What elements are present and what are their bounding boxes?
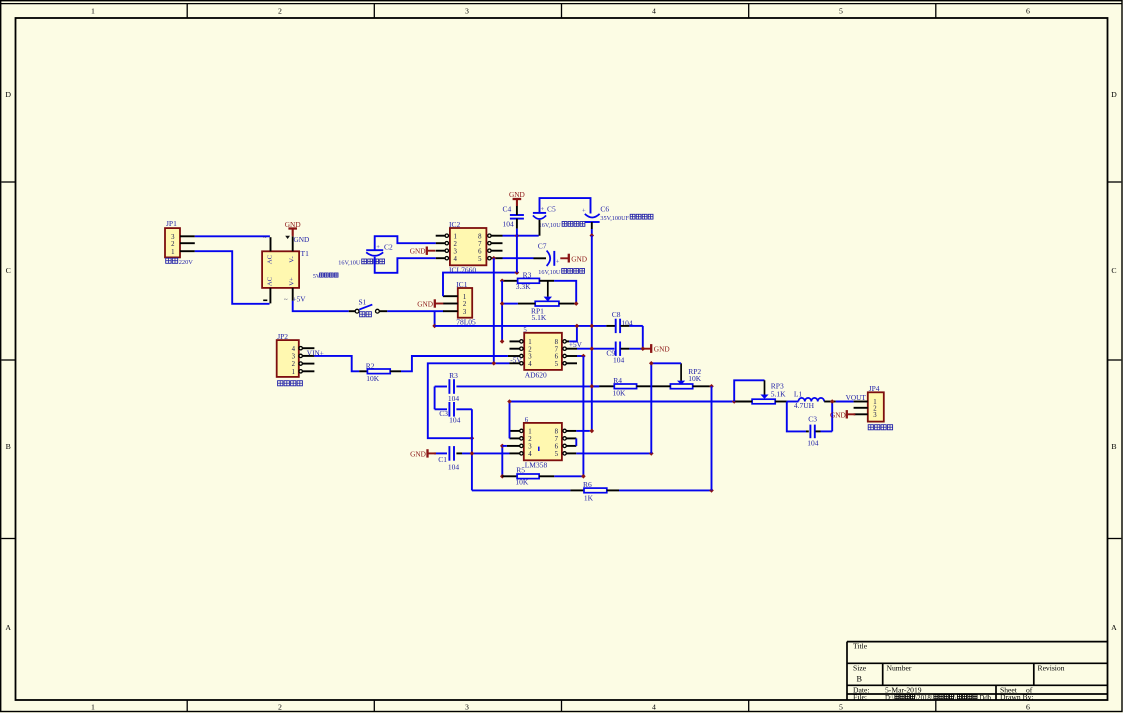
wire LM358.3 down to R5 [501,446,503,476]
svg-text:~: ~ [284,297,288,304]
svg-text:5: 5 [478,256,482,263]
wire JP1.3 to T1 AC1 [195,235,270,237]
svg-text:GND: GND [410,247,426,256]
svg-text:104: 104 [448,394,460,403]
svg-text:3: 3 [465,7,469,16]
svg-text:R6: R6 [583,480,592,489]
svg-text:4: 4 [652,7,656,16]
junction C6 bottom [590,233,595,238]
svg-text:3: 3 [465,703,469,712]
svg-text:~: ~ [263,235,267,242]
junction LM358.5 net [649,451,654,456]
capacitor C6 35V,100UF electrolytic [582,205,653,236]
svg-text:R4: R4 [613,376,622,385]
svg-text:16V,10U: 16V,10U [338,260,361,267]
svg-text:AC: AC [267,276,274,286]
connector JP2 signal input [277,332,315,386]
svg-text:V-: V- [289,256,296,262]
svg-text:L1: L1 [794,389,803,398]
capacitor R3 104 [435,371,460,403]
svg-text:104: 104 [448,462,460,471]
svg-text:C4: C4 [503,205,512,214]
instrumentation amp U AD620 [508,327,577,379]
capacitor C1 104 [434,446,510,471]
svg-text:1K: 1K [584,493,594,502]
wire C3out bracket left [787,402,806,432]
svg-text:A: A [5,623,11,632]
wire RP2 right down to R6 net [711,386,713,490]
svg-text:C8: C8 [612,310,621,319]
svg-text:104: 104 [449,416,461,425]
ground port GND above C4 [509,190,525,206]
junction C3out at VOUT [830,399,835,404]
wire LM358.6-7 bracket [575,438,577,446]
wire LM358.8 to rail [576,430,590,432]
svg-text:5: 5 [555,361,559,368]
wire +5V drop to AD620.8 [569,326,577,342]
svg-text:GND: GND [294,235,310,244]
svg-text:B: B [1111,442,1116,451]
svg-text:4: 4 [454,256,458,263]
wire RP2 wiper bracket to LM358.5 [651,363,681,453]
svg-text:B: B [857,674,863,683]
svg-text:Revision: Revision [1038,663,1065,672]
junction RP2 bracket [649,361,654,366]
wire +5V rail [435,325,607,327]
capacitor C8 104 [606,310,643,333]
svg-text:104: 104 [613,355,625,364]
svg-text:16V,10U: 16V,10U [538,269,561,276]
capacitor C3 104 [435,402,472,425]
junction LM358.3 [500,444,505,449]
svg-text:D: D [5,90,11,99]
wire RP3 to L1 [787,401,799,403]
junction R5 left [500,474,505,479]
resistor R4 10K [592,376,651,398]
junction C8/C9 right [641,346,646,351]
wire LM358.3 stub link [502,445,507,447]
svg-text:2: 2 [278,703,282,712]
resistor R2 10K [359,361,401,383]
svg-text:3: 3 [528,354,532,361]
svg-text:Number: Number [887,663,912,672]
wire R3 node down to AD620.1 [501,281,503,342]
svg-text:GND: GND [410,449,426,458]
svg-text:2: 2 [528,346,532,353]
wire C5 top to C6 top [540,198,591,213]
junction RP1 left [500,301,505,306]
wire LM358.5 to RP2 net [576,452,651,454]
junction R3 left [500,279,505,284]
capacitor C4 104 [503,205,524,273]
capacitor C2 16V,10U electrolytic [338,243,393,267]
svg-text:5: 5 [555,451,559,458]
junction C1 wire at -5V column [470,451,475,456]
junction C4 node [515,270,520,275]
svg-text:R3: R3 [523,270,532,279]
svg-text:C1: C1 [438,455,447,464]
svg-text:IC1: IC1 [456,280,468,289]
svg-text:.Ddb: .Ddb [978,695,992,702]
svg-text:S1: S1 [359,298,367,307]
regulator IC1 78L05 [443,280,476,327]
svg-text:AD620: AD620 [525,370,547,379]
capacitor C5 16V,10U electrolytic [533,205,585,236]
op-amp LM358 [507,417,576,469]
wire T1 V+ to switch S1 [293,301,349,311]
svg-text:GND: GND [509,190,525,199]
resistor R6 1K [570,480,711,502]
ground port GND at C7 [560,254,587,264]
svg-text:T1: T1 [301,249,310,258]
wire C2 top to IC2.2 [375,236,436,250]
svg-text:C5: C5 [547,205,556,214]
svg-text:R3: R3 [449,371,458,380]
svg-text:GND: GND [830,410,846,419]
resistor R3 3.3K [502,270,554,291]
svg-text:4: 4 [528,451,532,458]
svg-text:Drawn By:: Drawn By: [1000,693,1034,702]
svg-text:R2: R2 [366,361,375,370]
svg-text:GND: GND [654,345,670,354]
svg-text:8: 8 [478,233,482,240]
junction RP3 bracket on output row [732,399,737,404]
junction R6 right [709,488,714,493]
svg-text:5.1K: 5.1K [532,313,547,322]
svg-text:3: 3 [292,354,296,361]
svg-text:5: 5 [839,7,843,16]
wire C8 right to C9 right [642,326,644,349]
wire R2 to AD620.3 [401,356,508,371]
svg-text:2: 2 [292,361,296,368]
inductor L1 4.7UH [794,389,824,410]
resistor R5 10K [502,465,582,486]
svg-text:A: A [1111,623,1117,632]
svg-text:R5: R5 [516,465,525,474]
wire R3cap right to R4 row [456,385,599,387]
wire L1 to JP4.1 [824,401,853,403]
svg-text:1: 1 [454,233,457,240]
svg-text:\: \ [954,695,956,702]
svg-text:4: 4 [292,346,296,353]
svg-text:JP1: JP1 [166,219,177,228]
wire IC2.5 to C7 [503,257,534,259]
svg-text:LM358: LM358 [525,460,548,469]
svg-text:8: 8 [555,339,559,346]
connector JP4 output [854,384,893,430]
svg-text:3: 3 [463,309,467,316]
transformer module T1 5V switching supply [262,235,338,304]
wire C3 right down -5V column [471,409,473,490]
junction R5 right at pin6 column [581,474,586,479]
svg-text:7: 7 [478,241,482,248]
wire RP3 wiper bracket [734,380,764,401]
svg-text:10K: 10K [688,374,702,383]
svg-text:D: D [1111,90,1117,99]
svg-text:10K: 10K [515,477,529,486]
svg-text:JP4: JP4 [869,384,880,393]
wire AD620.7 to C9 [577,348,614,350]
capacitor C7 16V,10U electrolytic [534,242,585,277]
svg-text:220V: 220V [179,259,194,266]
wire C2 bottom to IC2.4 [375,257,436,273]
svg-text:6: 6 [555,444,559,451]
svg-text:2: 2 [171,241,175,248]
junction rail at +5V row [590,324,595,329]
svg-text:3.3K: 3.3K [516,282,531,291]
svg-text:V+: V+ [289,277,296,286]
svg-text:6: 6 [478,248,482,255]
wire -5V vertical [493,258,495,363]
svg-text:7: 7 [555,436,559,443]
svg-text:C2: C2 [384,243,393,252]
svg-text:-5V: -5V [510,355,522,364]
svg-text:GND: GND [571,254,587,263]
ground port GND at T1 V- [285,220,301,236]
svg-text:AC: AC [267,254,274,264]
svg-text:78L05: 78L05 [456,318,476,327]
ground port GND at C9 [643,344,670,354]
svg-text:+: + [556,259,560,266]
charge pump IC2 ICL7660 [436,220,503,274]
svg-text:4.7UH: 4.7UH [794,401,815,410]
svg-text:1: 1 [463,294,466,301]
svg-text:2: 2 [463,301,467,308]
title block [847,641,1107,702]
wire LM358.1/2 feedback to out row [510,402,736,439]
svg-text:6: 6 [555,354,559,361]
wire C3out right up to VOUT [831,402,833,432]
svg-text:1: 1 [91,7,95,16]
svg-text:C: C [6,266,11,275]
svg-text:4: 4 [528,361,532,368]
svg-text:GND: GND [417,300,433,309]
wire R3cap to C3 link [434,387,436,410]
svg-text:2: 2 [454,241,458,248]
wire JP2.3 to R2 [314,356,359,371]
junction R4 left on rail [590,384,595,389]
potentiometer RP3 5.1K [735,380,787,404]
svg-text:ICL7660: ICL7660 [449,265,476,274]
wire JP1.1 to T1 AC2 [195,251,270,304]
svg-text:1: 1 [528,429,531,436]
svg-text:C3: C3 [439,409,448,418]
svg-text:1: 1 [528,339,531,346]
junction RP2 right [709,384,714,389]
potentiometer RP1 5.1K [503,281,575,322]
svg-text:5: 5 [839,703,843,712]
wire IC2.8 to C5 [503,235,539,237]
junction +5V drop [575,324,580,329]
wire pin6 vertical to R5 [582,356,584,476]
svg-text:GND: GND [285,220,301,229]
svg-text:5-Mar-2019: 5-Mar-2019 [885,686,922,695]
junction -5V bottom link [470,436,475,441]
svg-text:Size: Size [853,663,867,672]
junction -5V at AD620.4 [492,361,497,366]
junction rail at pin7 row [590,346,595,351]
ground port GND at IC2.3 [410,247,436,256]
svg-text:B: B [6,442,11,451]
wire S1 to IC1 pin3 [379,310,443,312]
svg-text:C: C [1111,266,1116,275]
svg-text:5.1K: 5.1K [771,389,786,398]
wire IC1.1 to C4 node [443,273,517,297]
svg-text:7: 7 [555,346,559,353]
svg-text:8: 8 [555,429,559,436]
svg-text:104: 104 [807,438,819,447]
wire -5V to AD620.4 and down [428,363,510,438]
wire R3 right to RP1 right [554,281,576,304]
svg-text:D:\: D:\ [885,695,894,702]
junction LM358.8 rail [590,429,595,434]
svg-text:VOUT: VOUT [846,393,867,402]
wire -5V bottom row [472,489,571,491]
svg-text:\2018\: \2018\ [915,695,932,702]
connector JP1 [165,219,195,266]
svg-text:1: 1 [171,249,174,256]
svg-text:3: 3 [873,412,877,419]
svg-text:10K: 10K [613,389,627,398]
junction feedback corner [507,399,512,404]
svg-text:35V,100UF: 35V,100UF [600,215,629,222]
svg-text:1: 1 [292,369,295,376]
junction AD620.1 [500,339,505,344]
svg-text:Title: Title [853,641,868,650]
svg-text:6: 6 [1026,703,1030,712]
svg-text:+: + [582,208,586,215]
svg-text:C6: C6 [600,205,609,214]
svg-text:104: 104 [503,220,515,229]
junction -5V tap on IC2.5 [492,256,497,261]
svg-text:10K: 10K [366,374,380,383]
svg-text:JP2: JP2 [277,332,288,341]
svg-text:3: 3 [454,248,458,255]
svg-text:IC2: IC2 [449,220,461,229]
ground port GND at JP4.3 [830,410,855,419]
svg-text:C3: C3 [808,414,817,423]
wire main vertical rail right [591,236,593,431]
svg-text:+: + [541,206,545,213]
ground port GND at C1 [410,449,436,458]
svg-text:2: 2 [278,7,282,16]
svg-text:+5V: +5V [293,295,307,304]
junction RP1 right [574,301,579,306]
svg-text:2: 2 [528,436,532,443]
switch S1 [355,298,379,317]
capacitor C3 output 104 [806,414,832,447]
potentiometer RP2 10K [651,363,710,388]
svg-text:3: 3 [528,444,532,451]
svg-text:6: 6 [1026,7,1030,16]
svg-text:16V,10U: 16V,10U [539,222,562,229]
wire AD620.6 down [577,355,583,357]
svg-text:4: 4 [652,703,656,712]
svg-text:+: + [376,244,380,251]
junction AD620.6 [581,354,586,359]
svg-text:1: 1 [91,703,95,712]
svg-text:C7: C7 [538,242,547,251]
junction at C4 on pin8 wire [515,233,520,238]
ground port GND at IC1.2 [417,299,443,308]
wire +5V drop [434,311,436,326]
capacitor C9 104 [606,342,644,365]
junction at +5V rail corner [432,324,437,329]
svg-text:File:: File: [853,693,867,702]
